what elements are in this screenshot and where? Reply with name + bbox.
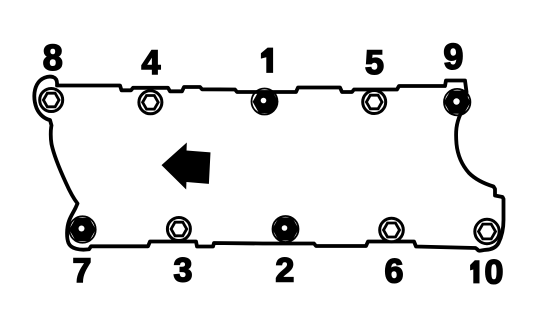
svg-text:0: 0 <box>485 253 504 291</box>
svg-text:2: 2 <box>275 252 294 290</box>
svg-text:7: 7 <box>73 252 92 290</box>
bolt 5 <box>363 91 386 114</box>
bolt 3 <box>167 218 190 241</box>
bolt 4 <box>139 91 162 114</box>
bolt 6 <box>380 218 404 242</box>
bolt 1 <box>252 89 278 115</box>
svg-text:5: 5 <box>365 44 384 82</box>
bolt 9 <box>444 89 470 115</box>
bolt 10 <box>475 219 499 243</box>
label 1 <box>261 48 273 73</box>
bolt 2 <box>273 216 299 242</box>
bolt 8 <box>40 89 63 112</box>
direction arrow <box>161 142 211 191</box>
svg-text:8: 8 <box>43 37 63 78</box>
svg-text:9: 9 <box>443 36 463 77</box>
svg-text:3: 3 <box>174 252 193 290</box>
label 10 <box>470 260 479 283</box>
bolt 7 <box>69 216 95 242</box>
svg-text:4: 4 <box>142 44 161 82</box>
svg-text:6: 6 <box>384 253 403 291</box>
valve cover gasket outline <box>34 77 503 251</box>
